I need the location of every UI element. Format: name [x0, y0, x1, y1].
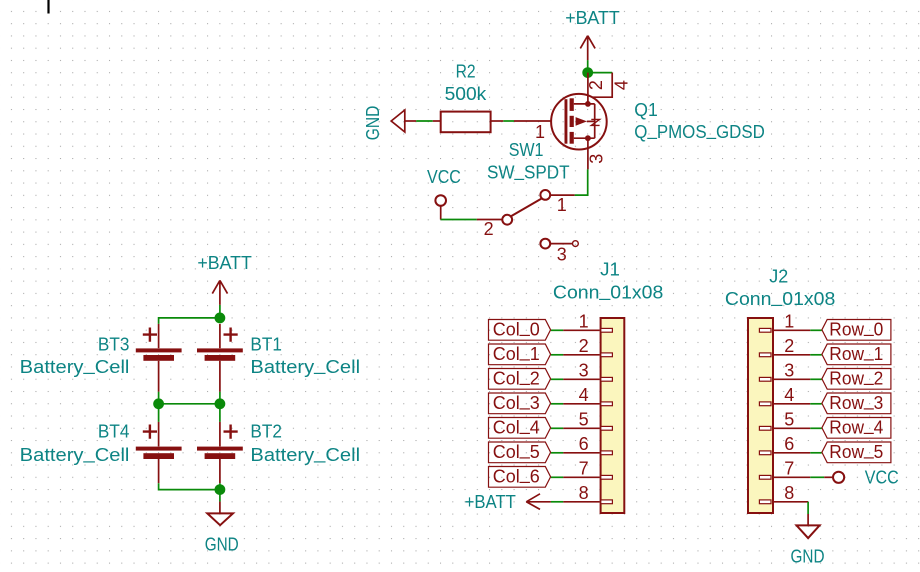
- svg-text:4: 4: [784, 385, 794, 405]
- global label Col_0: [489, 317, 551, 341]
- global label Col_6: [489, 464, 551, 488]
- power symbol GND (battery): [207, 502, 233, 526]
- wires to middle junctions: [158, 392, 160, 404]
- svg-text:Conn_01x08: Conn_01x08: [725, 287, 835, 309]
- junction bottom: [215, 484, 226, 495]
- svg-text:2: 2: [484, 219, 494, 239]
- svg-text:Col_0: Col_0: [493, 317, 540, 340]
- wire vcc to switch: [441, 219, 477, 221]
- J2 wires: [810, 330, 824, 477]
- svg-text:BT1: BT1: [250, 334, 282, 354]
- pin top: [158, 422, 160, 447]
- svg-text:Col_3: Col_3: [493, 390, 540, 413]
- switch pin 1 circle: [540, 190, 550, 200]
- svg-text:500k: 500k: [445, 84, 488, 104]
- wire gnd to resistor: [405, 120, 416, 122]
- svg-text:J1: J1: [600, 259, 620, 279]
- J2 pin8 wire to GND: [807, 502, 809, 514]
- top plate: [136, 447, 182, 451]
- gate arrow: [576, 117, 587, 126]
- connector J2: [748, 318, 773, 513]
- svg-text:6: 6: [579, 434, 589, 454]
- power symbol GND (J2): [797, 514, 820, 538]
- switch SW1: [435, 195, 446, 219]
- pin top: [219, 422, 221, 447]
- switch lever: [511, 199, 541, 216]
- resistor R2: [441, 112, 491, 133]
- svg-text:4: 4: [612, 80, 632, 90]
- global label Row_1: [822, 341, 891, 365]
- svg-text:Conn_01x08: Conn_01x08: [553, 280, 663, 302]
- svg-text:BT3: BT3: [98, 334, 129, 354]
- svg-text:1: 1: [557, 195, 567, 215]
- global label Row_0: [822, 317, 891, 341]
- global label Col_4: [489, 415, 551, 439]
- svg-text:7: 7: [579, 459, 589, 479]
- drain connection: [574, 103, 595, 105]
- pin 4 line: [593, 73, 613, 98]
- top plate: [197, 447, 243, 451]
- channel bar middle: [570, 116, 574, 127]
- pin 5: [774, 427, 811, 429]
- svg-text:Col_2: Col_2: [493, 366, 540, 389]
- power symbol +BATT (J1 pin8): [526, 494, 551, 510]
- svg-text:Row_5: Row_5: [829, 439, 883, 462]
- channel bar bottom: [570, 132, 574, 144]
- wires down: [158, 404, 160, 422]
- svg-text:Col_4: Col_4: [493, 415, 540, 438]
- pin 3: [774, 378, 811, 380]
- svg-text:Col_5: Col_5: [493, 439, 540, 462]
- junction: [582, 67, 593, 78]
- global label Row_5: [822, 439, 891, 463]
- global label Col_5: [489, 439, 551, 463]
- svg-text:Row_0: Row_0: [829, 317, 883, 340]
- pin 2 line: [587, 73, 589, 104]
- battery BT1: [197, 324, 243, 392]
- body: [748, 318, 773, 513]
- switch pin 3 circle: [540, 239, 550, 249]
- svg-text:+BATT: +BATT: [565, 8, 620, 28]
- wire resistor to gate: [491, 120, 504, 122]
- svg-text:Q1: Q1: [634, 100, 658, 120]
- pin 5: [563, 427, 599, 429]
- pin 7: [563, 476, 599, 478]
- bottom plate: [205, 453, 236, 459]
- junction middle right: [215, 398, 226, 409]
- pin 3 line: [587, 138, 589, 169]
- svg-text:3: 3: [784, 361, 794, 381]
- power symbol +BATT (battery): [212, 280, 227, 305]
- svg-text:Battery_Cell: Battery_Cell: [20, 355, 130, 377]
- svg-text:BT2: BT2: [250, 422, 282, 442]
- bottom plate: [143, 355, 174, 361]
- gate bar: [565, 99, 568, 144]
- channel bar top: [570, 98, 574, 111]
- svg-text:+BATT: +BATT: [197, 253, 251, 273]
- bottom plate: [143, 453, 174, 459]
- pin 6: [774, 452, 811, 454]
- svg-text:Battery_Cell: Battery_Cell: [250, 355, 360, 377]
- pin 6: [563, 452, 599, 454]
- wire: [219, 305, 221, 314]
- wire bottom: [159, 483, 220, 501]
- transistor Q1: [551, 73, 631, 170]
- global label Row_3: [822, 390, 891, 414]
- pin 1: [563, 329, 599, 331]
- pin 7: [774, 476, 811, 478]
- bottom plate: [205, 355, 236, 361]
- svg-text:4: 4: [579, 385, 589, 405]
- svg-text:GND: GND: [363, 106, 383, 141]
- svg-text:3: 3: [557, 244, 567, 264]
- wire top horizontal: [159, 318, 220, 324]
- svg-text:Row_1: Row_1: [829, 341, 883, 364]
- pin top: [158, 324, 160, 348]
- wire: [588, 72, 613, 74]
- source connection: [574, 137, 595, 139]
- plus sign: [224, 425, 238, 439]
- svg-text:3: 3: [579, 361, 589, 381]
- pin bottom: [219, 459, 221, 483]
- svg-text:VCC: VCC: [427, 167, 461, 187]
- svg-text:2: 2: [586, 80, 606, 90]
- plus sign: [143, 425, 157, 439]
- power symbol GND (left arrow): [391, 110, 405, 132]
- svg-text:GND: GND: [205, 534, 239, 554]
- connector J1: [601, 318, 625, 513]
- pin 3 stub: [550, 243, 572, 245]
- svg-text:2: 2: [784, 336, 794, 356]
- svg-text:Col_6: Col_6: [493, 464, 540, 487]
- J1 pins: [563, 312, 612, 504]
- svg-text:Battery_Cell: Battery_Cell: [250, 443, 360, 465]
- VCC power symbol: [435, 195, 446, 206]
- pin 3: [563, 378, 599, 380]
- svg-text:SW1: SW1: [509, 140, 544, 160]
- global label Row_2: [822, 366, 891, 390]
- svg-text:Q_PMOS_GDSD: Q_PMOS_GDSD: [634, 120, 765, 142]
- svg-text:R2: R2: [456, 62, 476, 82]
- J1 wires: [551, 330, 563, 502]
- svg-text:BT4: BT4: [98, 422, 129, 442]
- body circle: [551, 94, 607, 150]
- unconnected marker: [573, 241, 579, 247]
- svg-text:1: 1: [579, 312, 589, 332]
- source dot: [585, 135, 591, 141]
- power symbol VCC (J2 pin7): [824, 472, 844, 483]
- pin 1: [774, 329, 811, 331]
- svg-text:+BATT: +BATT: [465, 492, 516, 512]
- svg-text:Battery_Cell: Battery_Cell: [20, 443, 130, 465]
- global label Col_3: [489, 390, 551, 414]
- J2 pins: [759, 312, 810, 504]
- top plate: [136, 348, 182, 352]
- svg-text:5: 5: [579, 410, 589, 430]
- body: [601, 318, 625, 513]
- pin bottom: [219, 361, 221, 392]
- svg-text:J2: J2: [769, 266, 788, 286]
- arrow stem: [587, 120, 595, 122]
- battery BT4: [136, 422, 182, 483]
- svg-text:Row_3: Row_3: [829, 390, 883, 413]
- pin 8: [774, 501, 809, 503]
- svg-text:7: 7: [784, 459, 794, 479]
- global label Col_1: [489, 341, 551, 365]
- svg-text:SW_SPDT: SW_SPDT: [487, 160, 570, 182]
- svg-text:6: 6: [784, 434, 794, 454]
- top plate: [197, 348, 243, 352]
- pin 4: [774, 403, 811, 405]
- svg-text:VCC: VCC: [865, 468, 899, 488]
- plus sign: [224, 328, 238, 342]
- svg-text:8: 8: [784, 483, 794, 503]
- wire pin1 to Q1 source: [550, 194, 575, 196]
- body line with substrate mark: [594, 104, 596, 138]
- wire middle: [159, 403, 220, 405]
- plus sign: [143, 328, 157, 342]
- pin 2: [774, 354, 811, 356]
- svg-text:2: 2: [579, 336, 589, 356]
- battery BT3: [136, 324, 182, 392]
- pin 2: [563, 354, 599, 356]
- pin 4: [563, 403, 599, 405]
- battery BT2: [197, 422, 243, 483]
- power symbol +BATT (top): [580, 36, 595, 61]
- wire: [587, 60, 589, 69]
- svg-text:Col_1: Col_1: [493, 341, 540, 364]
- svg-text:3: 3: [587, 154, 607, 164]
- pin bottom: [158, 361, 160, 392]
- svg-text:5: 5: [784, 410, 794, 430]
- pin top: [219, 324, 221, 348]
- svg-text:8: 8: [579, 483, 589, 503]
- drain dot: [585, 101, 591, 107]
- global label Row_4: [822, 415, 891, 439]
- junction top: [215, 313, 226, 324]
- global label Col_2: [489, 366, 551, 390]
- svg-text:GND: GND: [791, 547, 825, 567]
- pin bottom: [158, 459, 160, 483]
- switch pin 2 circle: [502, 215, 512, 225]
- junction middle left: [153, 398, 164, 409]
- pin 8: [563, 501, 599, 503]
- svg-text:Row_2: Row_2: [829, 366, 883, 389]
- svg-text:1: 1: [784, 312, 794, 332]
- svg-text:Row_4: Row_4: [829, 415, 883, 438]
